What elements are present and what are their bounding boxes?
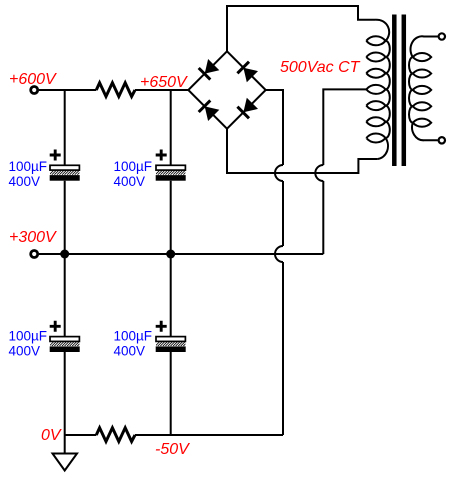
svg-text:100µF: 100µF	[114, 328, 153, 343]
svg-text:-50V: -50V	[155, 441, 190, 458]
svg-text:0V: 0V	[41, 427, 62, 444]
svg-text:400V: 400V	[9, 343, 41, 358]
svg-text:400V: 400V	[114, 174, 146, 189]
svg-text:+600V: +600V	[9, 71, 57, 88]
svg-text:400V: 400V	[9, 174, 41, 189]
svg-text:400V: 400V	[114, 343, 146, 358]
svg-text:+650V: +650V	[140, 74, 188, 91]
svg-text:500Vac CT: 500Vac CT	[280, 59, 361, 76]
svg-text:100µF: 100µF	[9, 159, 48, 174]
svg-text:100µF: 100µF	[9, 328, 48, 343]
svg-text:+300V: +300V	[9, 229, 57, 246]
svg-text:100µF: 100µF	[114, 159, 153, 174]
